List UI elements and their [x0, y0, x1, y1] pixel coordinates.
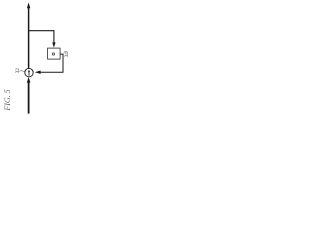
svg-text:FIG. 5: FIG. 5 [3, 89, 12, 111]
small circle inside box [52, 53, 54, 55]
wire: main vertical line above circle [28, 7, 30, 69]
caption FIG. 5 (rotated) [3, 89, 12, 111]
lead line to 32 [20, 70, 25, 73]
wire: bottom vertical line with arrow up into circle [28, 81, 30, 114]
arrowhead into circle right pointing left [35, 71, 41, 74]
wire: from box right side, down and left to circle [40, 54, 63, 72]
circle component (current source 32) [25, 68, 33, 76]
lead line to 34 [64, 51, 68, 52]
wire: branch horizontal to box [28, 31, 54, 44]
arrowhead pointing up into circle bottom [27, 77, 31, 83]
arrow mark inside circle [28, 71, 30, 76]
label 32 (rotated) [15, 68, 21, 74]
arrowhead top pointing up [27, 2, 30, 8]
arrowhead into box top pointing down [52, 42, 55, 47]
svg-text:34: 34 [64, 52, 70, 58]
svg-text:32: 32 [15, 68, 21, 74]
box (component 34) [48, 48, 61, 59]
label 34 (rotated) [64, 52, 70, 58]
